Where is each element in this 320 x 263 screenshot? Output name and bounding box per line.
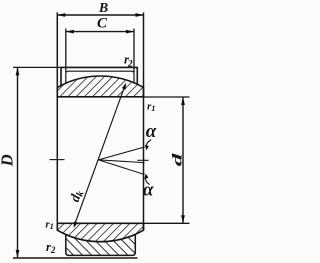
dimension B: right arrowhead — [136, 13, 144, 17]
extension line D top — [13, 66, 61, 68]
dimension C: right arrowhead — [126, 30, 134, 34]
svg-text:α: α — [143, 180, 154, 201]
dk bottom arrowhead — [74, 221, 79, 228]
inner ring top section (hatched lens) — [57, 76, 143, 97]
svg-text:α: α — [146, 121, 157, 142]
dimension C: left arrowhead — [66, 30, 74, 34]
dimension D: top arrowhead — [16, 67, 20, 75]
svg-text:C: C — [97, 16, 108, 32]
dimension B: left arrowhead — [57, 13, 65, 17]
extension line B left / inner ring left face — [56, 12, 58, 230]
centerline tick left — [50, 159, 65, 161]
svg-text:B: B — [98, 1, 108, 16]
angle alpha bottom: curved leader with arrowhead — [145, 177, 149, 185]
outer ring top chamfer contour (rounded rect) — [66, 71, 134, 83]
svg-text:r1: r1 — [147, 100, 156, 113]
dimension D: bottom arrowhead — [16, 250, 20, 258]
centerline tick right — [137, 159, 148, 161]
extension line B right / inner ring right face — [143, 12, 145, 230]
angle alpha top: curved leader with arrowhead — [146, 140, 151, 148]
OD bottom line / D bottom extension — [13, 257, 138, 259]
misalignment fan: upper line — [99, 147, 145, 160]
dimension B: dim line — [57, 14, 143, 16]
dimension C: dim line — [66, 31, 134, 33]
bore bottom line extension (d bottom) — [144, 222, 190, 224]
misalignment fan: middle line — [99, 160, 145, 163]
svg-text:D: D — [0, 154, 17, 167]
outer ring bottom section (hatched band) — [66, 234, 136, 255]
outer ring top outline (OD line + side faces) — [61, 67, 137, 85]
dimension d: dim line right — [182, 97, 184, 223]
sphere diameter line dk — [74, 84, 125, 225]
bore top line extension (d top) — [144, 96, 190, 98]
extension line C right — [133, 29, 135, 72]
dimension d: top arrowhead — [181, 97, 185, 105]
extension line C left — [65, 29, 67, 72]
svg-text:d: d — [170, 153, 185, 167]
svg-text:r1: r1 — [45, 218, 54, 231]
inner ring bottom section (hatched lens) — [57, 223, 143, 241]
dk top arrowhead — [122, 83, 126, 90]
dimension d: bottom arrowhead — [181, 215, 185, 223]
dimension D: dim line left — [17, 67, 19, 258]
misalignment fan: lower line — [99, 160, 145, 175]
